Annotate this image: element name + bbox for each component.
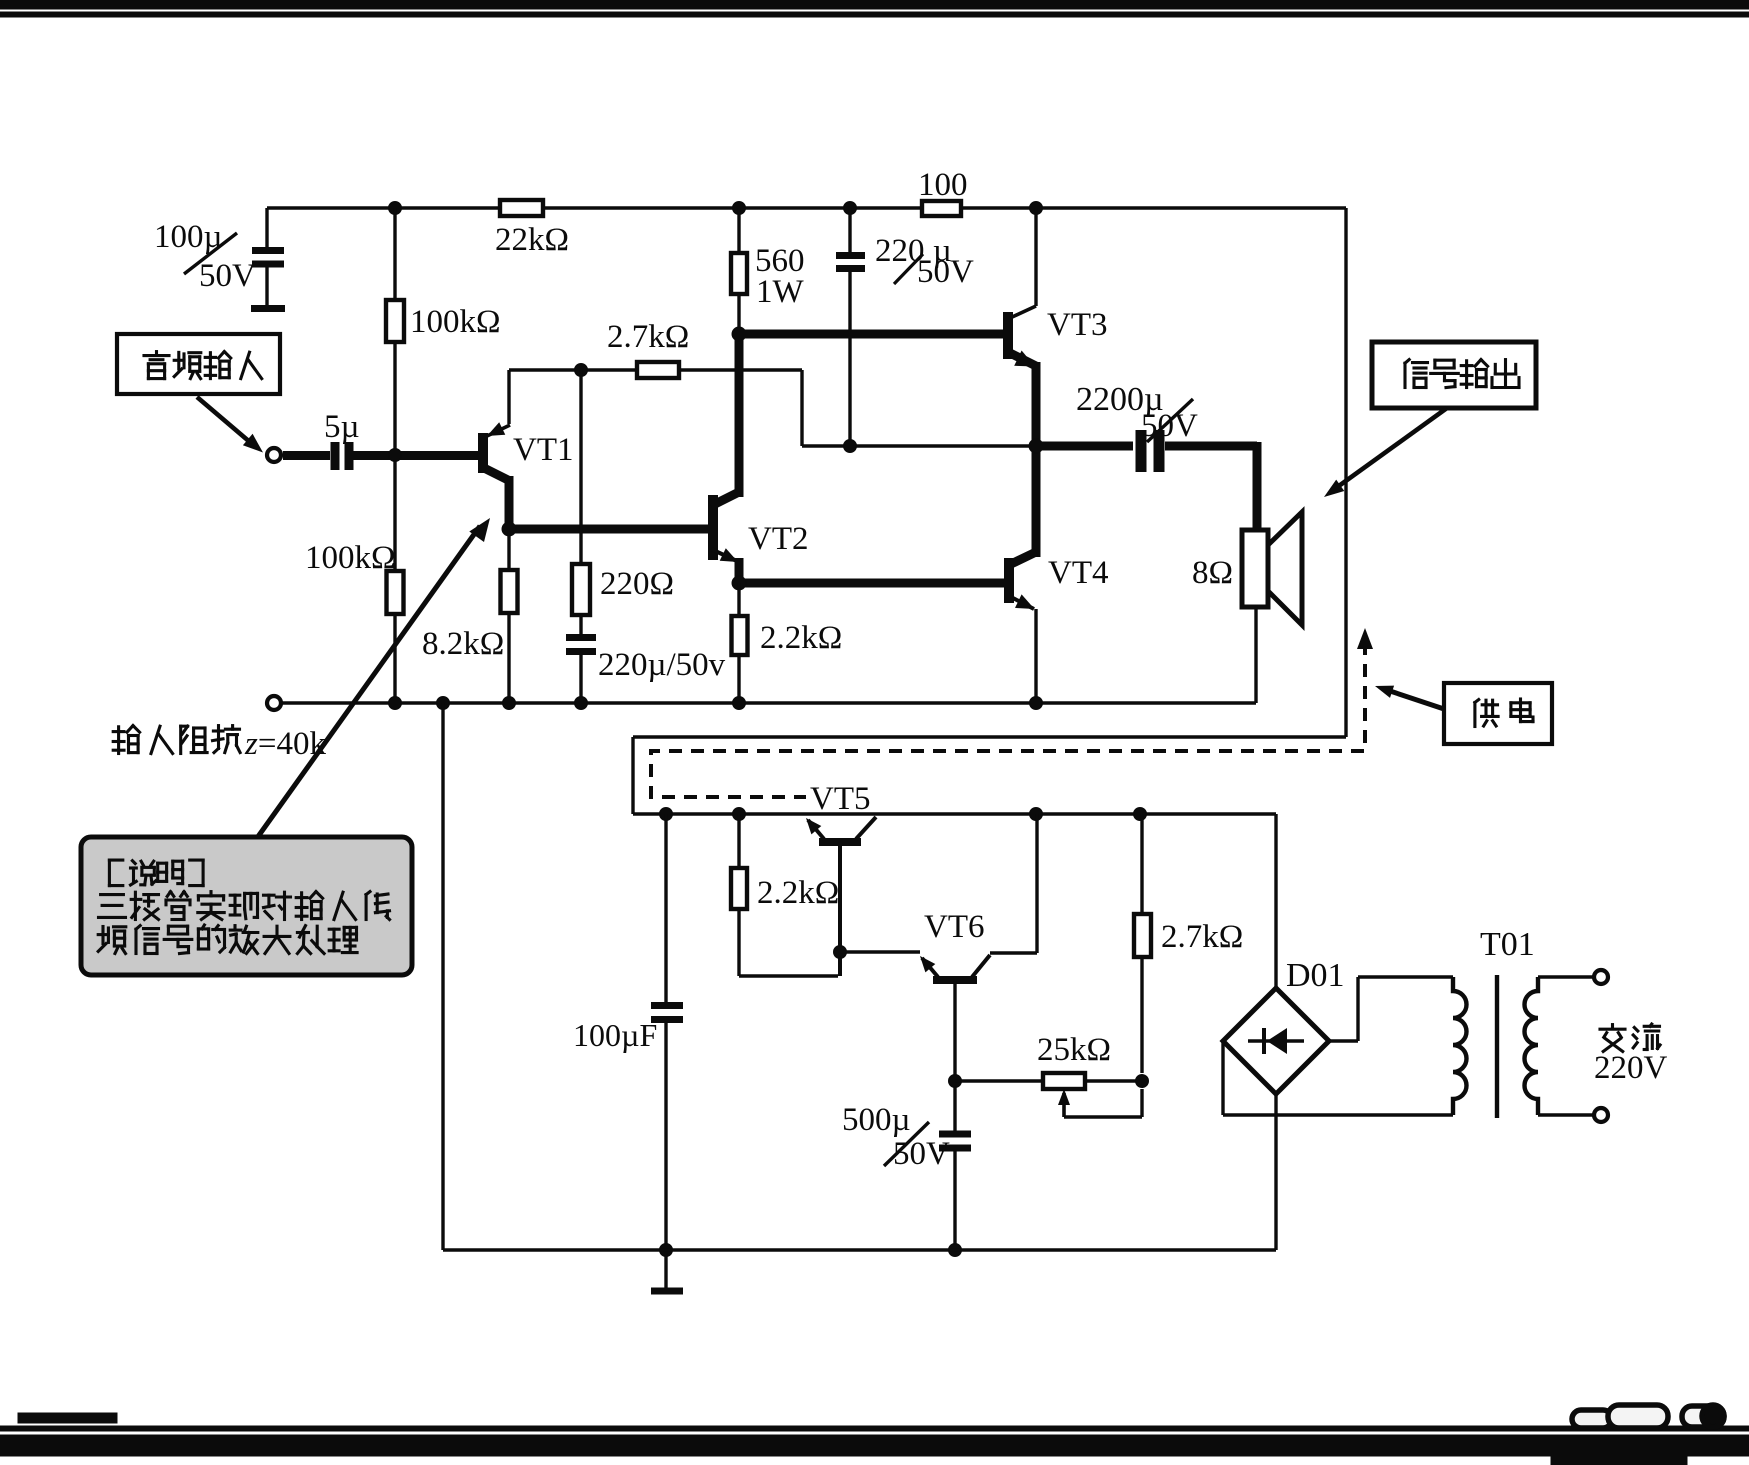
svg-text:2.2kΩ: 2.2kΩ xyxy=(757,875,839,911)
wire VT1 emitter up xyxy=(507,370,510,424)
arrow pot wiper xyxy=(1058,1089,1142,1117)
svg-text:VT3: VT3 xyxy=(1047,307,1108,343)
svg-text:100kΩ: 100kΩ xyxy=(410,304,501,340)
resistor 100k upper xyxy=(386,300,404,342)
label input impedance xyxy=(113,726,326,762)
svg-text:22kΩ: 22kΩ xyxy=(495,222,569,258)
svg-text:2.2kΩ: 2.2kΩ xyxy=(760,620,842,656)
label AC 220V xyxy=(1594,1024,1668,1086)
label box audio input xyxy=(117,334,280,394)
resistor 2.2k regulator xyxy=(731,814,838,976)
node input terminal bottom xyxy=(267,696,281,710)
svg-text:1W: 1W xyxy=(756,274,805,310)
resistor 8.2k xyxy=(501,531,518,703)
resistor 2.7k bootstrap xyxy=(637,362,679,378)
capacitor 2200u/50V output xyxy=(1141,430,1159,472)
svg-text:100µ: 100µ xyxy=(154,219,223,255)
wire power flow dashed xyxy=(651,642,1365,797)
capacitor 100uF xyxy=(651,814,683,1257)
svg-text:VT6: VT6 xyxy=(924,909,985,945)
transformer T01 secondary xyxy=(1525,977,1539,1115)
svg-text:500µ: 500µ xyxy=(842,1102,911,1138)
transistor VT3 xyxy=(1008,306,1036,367)
arrow audio input pointer xyxy=(197,397,263,453)
svg-text:220Ω: 220Ω xyxy=(600,566,674,602)
svg-text:2.7kΩ: 2.7kΩ xyxy=(1161,919,1243,955)
value 100u/50V xyxy=(154,219,256,294)
svg-text:220µ/50v: 220µ/50v xyxy=(598,647,726,683)
svg-text:100kΩ: 100kΩ xyxy=(305,540,396,576)
resistor 220 ohm xyxy=(572,564,590,615)
resistor 2.7k regulator xyxy=(1134,814,1151,1073)
arrow power supply pointer xyxy=(1375,686,1444,709)
wire VT6 emitter column xyxy=(949,981,962,1257)
wire VT4 emitter down xyxy=(1034,609,1037,703)
wire VT3 base bold xyxy=(739,330,1005,339)
node VT5 base xyxy=(834,946,847,959)
wire output bold to speaker xyxy=(1165,442,1257,532)
wire secondary bottom + terminal xyxy=(1538,1108,1608,1122)
svg-text:8.2kΩ: 8.2kΩ xyxy=(422,626,504,662)
capacitor 500u/50V xyxy=(939,1134,971,1148)
resistor 100 on rail xyxy=(922,201,961,216)
svg-text:100: 100 xyxy=(918,167,968,203)
wire output bold to cap xyxy=(1036,442,1133,451)
resistor 2.2k VT2 emitter xyxy=(732,583,748,703)
svg-text:T01: T01 xyxy=(1480,926,1535,963)
wire input signal bold xyxy=(283,451,480,460)
potentiometer 25k xyxy=(955,1073,1149,1089)
wire bridge dc- xyxy=(1274,1094,1277,1250)
wire bootstrap feed xyxy=(509,364,1036,447)
svg-text:VT4: VT4 xyxy=(1048,555,1109,591)
wire speaker return xyxy=(1254,607,1257,703)
wire bridge dc+ xyxy=(1274,814,1277,988)
node output xyxy=(1029,439,1043,453)
wire VT2 collector bold column xyxy=(732,327,746,495)
arrow power flow head xyxy=(1357,628,1373,649)
resistor 22k on rail xyxy=(500,200,543,216)
wire VT2 emitter bold to VT4 base xyxy=(732,558,1009,590)
arrow explanation pointer xyxy=(257,518,490,838)
resistor 560 1W xyxy=(731,208,747,331)
value 2200u/50V xyxy=(1076,381,1198,444)
wire VT1 collector to VT2 base bold xyxy=(502,522,713,536)
wire bridge ac left xyxy=(1223,1041,1453,1115)
svg-text:100µF: 100µF xyxy=(573,1017,657,1053)
speaker 8 ohm xyxy=(1242,512,1302,625)
capacitor 5u coupling xyxy=(335,442,349,470)
wire secondary top + terminal xyxy=(1538,970,1608,984)
transistor VT1 xyxy=(483,422,510,531)
node rail junctions xyxy=(389,202,1043,215)
svg-text:5µ: 5µ xyxy=(324,409,360,445)
svg-text:2.7kΩ: 2.7kΩ xyxy=(607,319,689,355)
wire VT5 base to VT6 xyxy=(840,950,920,953)
ground xyxy=(651,1250,683,1291)
arrow signal output pointer xyxy=(1324,408,1447,497)
capacitor 220u/50V bootstrap xyxy=(836,208,865,453)
note box explanation xyxy=(81,837,412,975)
bridge rectifier D01 xyxy=(1223,988,1329,1094)
node input terminal top xyxy=(267,448,281,462)
resistor 100k lower xyxy=(387,571,404,614)
value 500u/50V xyxy=(842,1102,950,1172)
svg-text:VT5: VT5 xyxy=(810,781,871,817)
transformer T01 core xyxy=(1495,975,1499,1118)
wire ground rail power xyxy=(443,703,1276,1250)
svg-text:8Ω: 8Ω xyxy=(1192,555,1233,591)
transistor VT4 xyxy=(1009,552,1036,609)
wire bridge ac right xyxy=(1329,977,1453,1041)
wire output bold column xyxy=(1032,362,1041,557)
transistor VT6 xyxy=(920,955,990,980)
svg-text:50V: 50V xyxy=(1141,408,1198,444)
capacitor 100u/50V filter xyxy=(251,208,285,309)
svg-text:50V: 50V xyxy=(893,1136,950,1172)
svg-text:VT1: VT1 xyxy=(513,432,574,468)
node base bias junction xyxy=(389,449,402,462)
wire right supply drop xyxy=(633,208,1346,814)
transformer T01 primary xyxy=(1453,977,1467,1115)
wire regulated rail VT5 xyxy=(633,808,1276,821)
svg-text:D01: D01 xyxy=(1286,957,1345,994)
svg-text:220V: 220V xyxy=(1594,1050,1668,1086)
wire VT3 collector xyxy=(1034,208,1037,306)
svg-text:VT2: VT2 xyxy=(748,521,809,557)
transistor VT5 xyxy=(806,817,876,976)
wire VT6 collector to rail xyxy=(990,814,1037,953)
wire emitter load column x581 xyxy=(579,370,582,703)
value 220u/50V xyxy=(875,233,974,290)
wire bias column x395 xyxy=(393,208,396,703)
label box signal output xyxy=(1372,342,1536,408)
svg-text:50V: 50V xyxy=(917,254,974,290)
wire top supply rail xyxy=(267,206,1346,209)
transistor VT2 xyxy=(711,489,739,562)
label box power supply xyxy=(1444,683,1552,744)
value 560 1W xyxy=(755,243,805,310)
capacitor 220u/50v bypass xyxy=(566,638,596,652)
svg-text:50V: 50V xyxy=(199,258,256,294)
svg-text:25kΩ: 25kΩ xyxy=(1037,1032,1111,1068)
wire ground rail amp xyxy=(281,697,1256,710)
